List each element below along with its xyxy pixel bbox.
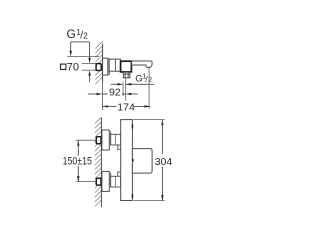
svg-text:150±15: 150±15 [63, 156, 93, 168]
dimension 150±15 line and arrows [77, 140, 79, 146]
square-70 dimension arrows [88, 58, 90, 64]
escutcheon 1 (bottom view) [102, 130, 109, 150]
square-70 extension lines [82, 62, 96, 64]
wall extension line [101, 77, 103, 111]
grip tick bottom [132, 194, 134, 198]
dimension 304 extension lines [133, 119, 164, 121]
grip tick top [132, 124, 134, 128]
spout tip extension line [148, 67, 150, 109]
shower outlet stub (below square body) [123, 72, 130, 78]
extension line of thread (line A) [67, 55, 99, 57]
check valve step 1 [118, 145, 121, 149]
svg-text:92: 92 [109, 86, 121, 98]
svg-text:G: G [67, 27, 76, 41]
outlet extension line (center) [125, 79, 127, 101]
square cartridge body (top view) [121, 61, 132, 72]
dimension 92 [88, 86, 138, 98]
wall face line (bottom view) [100, 118, 102, 207]
dimension 174 [102, 102, 150, 114]
escutcheon rim line [108, 58, 110, 75]
escutcheon 2 (bottom view) [102, 171, 109, 191]
svg-text:70: 70 [67, 62, 79, 74]
escutcheon (top view) [103, 58, 108, 75]
union nut 2 (bottom view) [96, 178, 101, 185]
svg-text:174: 174 [117, 102, 135, 114]
union nut (top view) [96, 64, 101, 71]
wall face line (top view) [102, 44, 104, 83]
temperature mark dot [132, 159, 134, 161]
svg-text:304: 304 [155, 156, 173, 168]
inlet port 2 [111, 176, 121, 187]
wall hatch (bottom view) [95, 117, 101, 206]
cartridge block (bottom view) [132, 149, 152, 174]
G 1/2 label (top) [67, 27, 89, 41]
leader from G1/2 label [71, 42, 90, 59]
G 1/2 label (outlet) [135, 73, 152, 84]
escutcheon 2 rim line [110, 173, 112, 187]
check valve step 2 [118, 172, 121, 176]
dimension 304 line and arrows [161, 120, 163, 126]
svg-text:2: 2 [83, 32, 88, 41]
dimension 150±15 extension lines [76, 139, 96, 141]
union nut 1 (bottom view) [96, 137, 101, 144]
outlet label leader / underline with arrow [126, 83, 154, 85]
opposing arrow at outlet [111, 83, 118, 85]
escutcheon 1 rim line [110, 131, 112, 145]
leader arrowhead left (points to extension line) [70, 51, 72, 57]
inlet port 1 [111, 134, 121, 145]
wall hatch (top view) [95, 41, 102, 84]
bath spout arm [132, 61, 153, 68]
body cylinder (top view) [109, 59, 120, 71]
square-70 dimension text [61, 62, 80, 74]
main body (bottom view) [121, 120, 133, 201]
cylinder joint line [114, 59, 116, 71]
outlet extension line (left edge) [122, 82, 124, 96]
